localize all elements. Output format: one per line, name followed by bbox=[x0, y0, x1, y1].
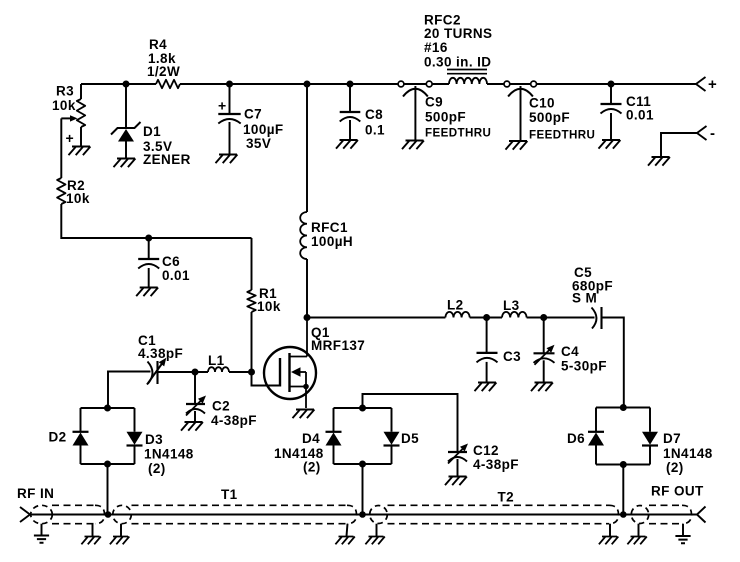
wire D2D3 top bus bbox=[81, 407, 135, 409]
node Q1 drain bbox=[304, 314, 311, 321]
label C3 bbox=[503, 349, 521, 364]
svg-text:(2): (2) bbox=[666, 460, 684, 475]
svg-text:100µF: 100µF bbox=[243, 122, 284, 137]
svg-text:S M: S M bbox=[572, 291, 597, 306]
svg-text:(2): (2) bbox=[148, 461, 166, 476]
capacitor C1 variable bbox=[147, 358, 166, 385]
svg-text:1/2W: 1/2W bbox=[147, 64, 180, 79]
svg-text:D1: D1 bbox=[143, 124, 161, 139]
node D4D5 top bbox=[359, 405, 366, 412]
wire C5 to D6D7 bbox=[602, 318, 624, 408]
svg-text:MRF137: MRF137 bbox=[311, 338, 365, 353]
svg-text:C10: C10 bbox=[529, 96, 555, 111]
svg-text:(2): (2) bbox=[303, 460, 321, 475]
wire R3 bottom bbox=[80, 127, 82, 146]
svg-text:L3: L3 bbox=[503, 298, 520, 313]
wire C4 bottom bbox=[543, 360, 545, 382]
ground C12 bbox=[445, 477, 467, 486]
diode D2 bbox=[73, 432, 89, 446]
svg-text:+: + bbox=[708, 76, 717, 93]
wire R2 to C6 node bbox=[61, 204, 251, 238]
svg-text:ZENER: ZENER bbox=[143, 152, 191, 167]
svg-text:C3: C3 bbox=[503, 349, 521, 364]
wire L2 to L3 bbox=[470, 317, 502, 319]
svg-text:100µH: 100µH bbox=[311, 234, 353, 249]
svg-text:L2: L2 bbox=[447, 298, 464, 313]
wiper arrow R3 bbox=[61, 115, 77, 121]
node L1 left junction bbox=[192, 369, 199, 376]
svg-text:10k: 10k bbox=[52, 98, 76, 113]
inductor L2 bbox=[445, 312, 469, 318]
label D6 bbox=[567, 431, 585, 446]
ground C2 bbox=[181, 422, 203, 431]
ground R3 bbox=[69, 147, 91, 156]
label + wiper bbox=[66, 130, 75, 146]
wire wiper to R2 bbox=[60, 118, 62, 178]
wire D7 leads bbox=[649, 408, 651, 465]
wire C3 lead bbox=[486, 318, 488, 353]
wire D2D3 bottom bus bbox=[81, 463, 135, 465]
label D3 bbox=[144, 432, 194, 476]
node D1 top bbox=[123, 81, 130, 88]
transformer T2 shield bbox=[370, 505, 619, 523]
wire C4 lead bbox=[543, 318, 545, 354]
svg-text:35V: 35V bbox=[246, 136, 271, 151]
node C6 junction bbox=[145, 235, 152, 242]
svg-text:T1: T1 bbox=[221, 487, 238, 502]
label D5 bbox=[401, 431, 419, 446]
wire C8 lead bbox=[349, 84, 351, 112]
capacitor C12 variable bbox=[448, 444, 468, 464]
ground C9 bbox=[402, 141, 424, 150]
inductor RFC1 bbox=[300, 84, 307, 318]
label L3 bbox=[503, 298, 520, 313]
ground C7 bbox=[216, 155, 238, 164]
wire D5 leads bbox=[391, 408, 393, 464]
wire D1 lead bbox=[125, 84, 127, 128]
node T1T2 junction bbox=[359, 511, 366, 518]
wire D4D5 bottom bus bbox=[334, 463, 392, 465]
label D1 bbox=[143, 124, 191, 167]
node D6D7 top bbox=[620, 404, 627, 411]
ground input stub braid bbox=[81, 524, 100, 545]
transistor Q1 MRF137 bbox=[264, 318, 316, 409]
node D2D3 bottom bbox=[104, 461, 111, 468]
wire D4 leads bbox=[333, 408, 335, 464]
wire R3 top bbox=[80, 84, 82, 99]
svg-text:D6: D6 bbox=[567, 431, 585, 446]
svg-text:1N4148: 1N4148 bbox=[144, 447, 194, 462]
node C3 junction bbox=[483, 314, 490, 321]
label RFC1 bbox=[311, 220, 353, 249]
svg-text:C4: C4 bbox=[561, 344, 579, 359]
diode D4 bbox=[326, 432, 342, 446]
wire C2 lead bbox=[194, 372, 196, 404]
capacitor C4 variable bbox=[534, 345, 555, 365]
svg-text:-: - bbox=[710, 125, 715, 142]
capacitor C8 bbox=[340, 112, 361, 122]
svg-text:4-38pF: 4-38pF bbox=[473, 457, 519, 472]
svg-text:R3: R3 bbox=[56, 84, 74, 99]
wire D3 leads bbox=[134, 408, 136, 464]
wire C12 bottom bbox=[457, 459, 459, 476]
node RFC1 top bbox=[304, 81, 311, 88]
feedthru ring c bbox=[504, 81, 510, 87]
terminal RF OUT arrow bbox=[697, 507, 706, 523]
wire L1 to gate node bbox=[229, 371, 252, 373]
wire gate lead bbox=[252, 372, 281, 386]
svg-text:L1: L1 bbox=[208, 353, 225, 368]
capacitor C6 bbox=[138, 259, 159, 269]
label C4 bbox=[561, 344, 607, 374]
ground C4 bbox=[531, 383, 553, 392]
svg-text:RF IN: RF IN bbox=[17, 486, 54, 501]
diode D1 zener bbox=[111, 122, 141, 158]
capacitor C5 bbox=[592, 307, 602, 329]
wire D6D7 top bus bbox=[596, 407, 650, 409]
label C10 bbox=[529, 96, 595, 142]
label D4 bbox=[274, 431, 324, 475]
resistor R1 bbox=[247, 238, 255, 372]
wire D4D5 top bus bbox=[334, 407, 392, 409]
earth ground RF IN bbox=[34, 524, 49, 543]
wire D2D3 to T1 bbox=[107, 464, 109, 515]
label T2 bbox=[498, 490, 515, 505]
svg-text:0.30 in. ID: 0.30 in. ID bbox=[424, 55, 491, 70]
svg-text:#16: #16 bbox=[424, 40, 448, 55]
svg-text:C9: C9 bbox=[425, 95, 443, 110]
label D2 bbox=[49, 430, 67, 445]
inductor L3 bbox=[502, 312, 527, 318]
svg-text:FEEDTHRU: FEEDTHRU bbox=[425, 127, 491, 140]
terminal + output bbox=[696, 76, 717, 93]
svg-text:+: + bbox=[66, 130, 75, 146]
svg-text:C12: C12 bbox=[473, 443, 499, 458]
wire C7 bottom bbox=[229, 122, 231, 154]
label RFC2 bbox=[424, 13, 492, 70]
node C7 top bbox=[226, 81, 233, 88]
svg-text:5-30pF: 5-30pF bbox=[561, 359, 607, 374]
wire L3 to C5 bbox=[527, 317, 595, 319]
svg-text:FEEDTHRU: FEEDTHRU bbox=[529, 129, 595, 142]
capacitor C9 feedthru bbox=[403, 86, 428, 140]
ground T2 right braid bbox=[599, 524, 618, 545]
node RF OUT junction bbox=[620, 511, 627, 518]
wire D6 leads bbox=[595, 408, 597, 465]
coax shield input stub bbox=[31, 505, 105, 523]
svg-text:T2: T2 bbox=[498, 490, 515, 505]
feedthru ring d bbox=[531, 81, 537, 87]
ground C3 bbox=[475, 383, 497, 392]
label L1 bbox=[208, 353, 225, 368]
node gate junction bbox=[248, 369, 255, 376]
capacitor C2 variable bbox=[186, 396, 206, 416]
wire C6 bottom bbox=[148, 268, 150, 287]
svg-text:1N4148: 1N4148 bbox=[663, 446, 713, 461]
inductor RFC2 bbox=[447, 70, 487, 85]
wire C1 branch bbox=[108, 372, 151, 409]
label C7 bbox=[243, 107, 284, 152]
ground T2 left braid bbox=[365, 524, 384, 545]
inductor L1 bbox=[208, 367, 229, 372]
node RF IN junction bbox=[105, 511, 112, 518]
svg-text:4-38pF: 4-38pF bbox=[211, 413, 257, 428]
label C5 bbox=[572, 265, 613, 306]
svg-text:RFC1: RFC1 bbox=[311, 220, 348, 235]
diode D7 bbox=[642, 432, 658, 446]
ground D1 bbox=[114, 159, 136, 168]
wire C3 bottom bbox=[486, 362, 488, 382]
wire C11 lead bbox=[610, 84, 612, 104]
wire C7 lead bbox=[229, 84, 231, 114]
node D2D3 top bbox=[104, 405, 111, 412]
wire top +V rail bbox=[81, 83, 696, 85]
diode D5 bbox=[384, 432, 400, 446]
svg-text:0.01: 0.01 bbox=[162, 268, 190, 283]
svg-text:D5: D5 bbox=[401, 431, 419, 446]
svg-text:D4: D4 bbox=[302, 431, 320, 446]
node C8 top bbox=[347, 81, 354, 88]
label RF OUT bbox=[651, 484, 704, 499]
svg-text:C8: C8 bbox=[365, 107, 383, 122]
terminal RF IN arrow bbox=[20, 507, 30, 522]
transformer T1 shield bbox=[113, 505, 357, 523]
diode D6 bbox=[588, 432, 604, 446]
wire D2 leads bbox=[80, 408, 82, 464]
capacitor C7 bbox=[218, 98, 241, 124]
ground C10 bbox=[506, 141, 528, 150]
label RF IN bbox=[17, 486, 54, 501]
resistor R3 (pot) bbox=[77, 99, 85, 127]
wire C6 lead bbox=[148, 238, 150, 259]
label C11 bbox=[626, 94, 654, 123]
capacitor C11 bbox=[601, 104, 622, 114]
node C11 top bbox=[608, 81, 615, 88]
resistor R4 bbox=[156, 80, 180, 88]
wire C11 bottom bbox=[610, 113, 612, 140]
label C9 bbox=[425, 95, 491, 140]
capacitor C10 feedthru bbox=[508, 86, 533, 141]
label Q1 bbox=[311, 325, 365, 353]
svg-text:10k: 10k bbox=[66, 191, 90, 206]
wire C2 bottom bbox=[194, 411, 196, 422]
wire coax center conductor bbox=[30, 514, 697, 516]
svg-text:500pF: 500pF bbox=[425, 110, 466, 125]
resistor R2 bbox=[57, 178, 65, 204]
label R1 bbox=[257, 286, 281, 314]
ground Q1 source bbox=[293, 410, 315, 419]
label R3 bbox=[52, 84, 76, 114]
svg-text:4.38pF: 4.38pF bbox=[138, 346, 183, 361]
wire C8 bottom bbox=[349, 120, 351, 140]
label T1 bbox=[221, 487, 238, 502]
label R4 value bbox=[147, 37, 180, 79]
wire C1 to L1 bbox=[158, 371, 209, 373]
svg-text:C2: C2 bbox=[212, 399, 230, 414]
svg-text:10k: 10k bbox=[257, 299, 281, 314]
label C12 bbox=[473, 443, 519, 472]
ground C11 bbox=[599, 140, 621, 149]
wire D6D7 bottom bus bbox=[596, 464, 650, 466]
svg-text:0.01: 0.01 bbox=[626, 108, 654, 123]
ground C8 bbox=[336, 140, 358, 149]
node C4 junction bbox=[540, 314, 547, 321]
svg-text:C6: C6 bbox=[162, 254, 180, 269]
ground - terminal bbox=[648, 157, 670, 166]
wire D4D5 to T1T2 node bbox=[362, 464, 364, 515]
feedthru ring a bbox=[398, 81, 404, 87]
label C6 bbox=[162, 254, 190, 283]
label D7 bbox=[663, 431, 713, 475]
svg-text:D7: D7 bbox=[663, 431, 681, 446]
ground T1 right braid bbox=[335, 524, 354, 545]
ground output stub braid bbox=[627, 524, 646, 545]
capacitor C3 bbox=[477, 353, 498, 363]
svg-text:D3: D3 bbox=[145, 432, 163, 447]
svg-text:C7: C7 bbox=[244, 107, 262, 122]
svg-text:20 TURNS: 20 TURNS bbox=[424, 26, 492, 41]
label C8 bbox=[365, 107, 385, 138]
earth ground RF OUT bbox=[675, 524, 690, 544]
svg-text:+: + bbox=[218, 98, 227, 114]
terminal - return bbox=[661, 125, 715, 156]
node D4D5 bottom bbox=[359, 461, 366, 468]
wire D4D5 to C12 bbox=[363, 394, 458, 452]
label C1 bbox=[138, 333, 183, 361]
feedthru ring b bbox=[426, 81, 432, 87]
svg-text:0.1: 0.1 bbox=[365, 123, 385, 138]
wire drain to L2 bbox=[307, 317, 445, 319]
label R2 bbox=[66, 178, 90, 206]
wire D6D7 to T2 out bbox=[622, 465, 624, 515]
ground C6 bbox=[136, 288, 158, 297]
svg-text:D2: D2 bbox=[49, 430, 67, 445]
svg-text:RF OUT: RF OUT bbox=[651, 484, 704, 499]
diode D3 bbox=[127, 432, 143, 446]
svg-text:500pF: 500pF bbox=[529, 110, 570, 125]
label C2 bbox=[211, 399, 257, 429]
label L2 bbox=[447, 298, 464, 313]
coax shield output stub bbox=[631, 505, 691, 523]
node D6D7 bottom bbox=[620, 461, 627, 468]
svg-text:R4: R4 bbox=[149, 37, 167, 52]
ground T1 left braid bbox=[110, 524, 129, 545]
